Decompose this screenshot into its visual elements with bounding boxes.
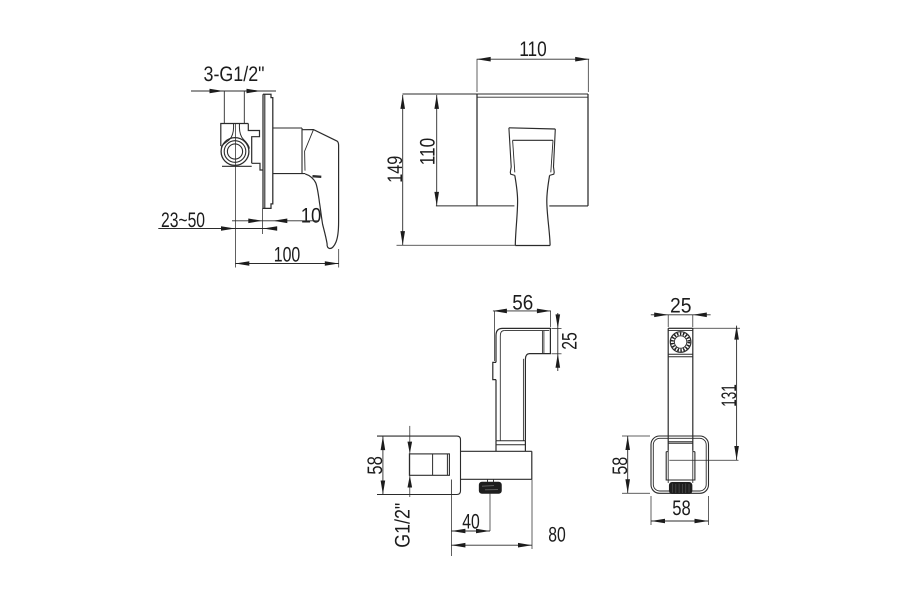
valve middle circle — [224, 141, 246, 163]
inlet pipe right line — [243, 91, 245, 124]
wand inner top line — [668, 330, 693, 332]
dimension 3-G1/2" arrow right (points right) — [247, 89, 261, 94]
sprayer inner left line — [500, 331, 504, 441]
socket sleeve top stubs — [666, 451, 695, 453]
svg-text:G1/2": G1/2" — [391, 503, 414, 548]
sprayer collar joint lines — [496, 441, 525, 445]
spray face inner circle — [674, 336, 686, 348]
extension line spout bottom — [397, 244, 516, 246]
sprayer outer contour — [493, 328, 551, 440]
G1/2 leader line — [409, 426, 411, 497]
sprayer inner top line — [504, 330, 549, 332]
holder plate inner outline — [653, 438, 706, 491]
bracket block top edge — [461, 450, 532, 452]
aerator knob highlight streaks — [482, 486, 498, 490]
dimension 149 arrow top — [400, 95, 405, 109]
dimension 10 arrow left-pointing — [273, 219, 287, 224]
svg-text:25: 25 — [670, 294, 692, 317]
dimension 58 fig3 arrow bottom — [381, 481, 386, 495]
head section bottom line — [668, 353, 693, 355]
escutcheon top edge — [273, 127, 302, 129]
dimension 25 fig4 line — [651, 314, 711, 316]
dimension 80 arrow left — [451, 543, 465, 548]
inlet pipe left line — [223, 91, 225, 124]
socket sleeve outline — [666, 452, 695, 480]
wall plate fig3 rounded square — [377, 436, 461, 494]
wall plate fig1 inner line — [264, 94, 266, 208]
bracket block right edge — [531, 451, 533, 479]
extension line 58 left top — [622, 435, 650, 437]
dimension 58 bottom arrow left — [651, 519, 665, 524]
extension line 58 bottom left — [650, 496, 652, 525]
extension line 25 left — [667, 315, 669, 327]
dimension 10 line — [232, 220, 319, 222]
svg-text:58: 58 — [672, 497, 691, 520]
aerator center leader — [489, 493, 491, 531]
dimension 23~50 line — [158, 228, 277, 230]
extension line 56 left — [493, 311, 495, 361]
dimension 40 arrow left — [451, 529, 465, 534]
extension line 56 right — [550, 311, 552, 327]
dimension 58 left fig4 arrow top — [625, 436, 630, 450]
spout right inner line — [551, 140, 553, 172]
handle joint collar lines — [668, 442, 693, 444]
dimension 3-G1/2" line — [191, 90, 276, 92]
plate bottom edge right segment — [549, 205, 588, 207]
plate left edge — [476, 94, 478, 206]
valve inner circle — [227, 144, 242, 159]
svg-text:80: 80 — [548, 524, 566, 547]
svg-text:58: 58 — [609, 457, 632, 475]
handle lever outline — [302, 130, 339, 249]
svg-text:110: 110 — [519, 38, 547, 61]
socket inner wall right — [692, 451, 694, 483]
dimension 100 arrow left end — [235, 261, 249, 266]
dimension 58 left fig4 arrow bottom — [625, 479, 630, 493]
extension line 25 right — [692, 315, 694, 327]
dimension 56 arrow right — [537, 309, 551, 314]
sprayer elbow inner lines — [542, 331, 544, 354]
dimension 25 fig4 arrow right (points left) — [693, 313, 707, 318]
dimension 110 left arrow bottom — [434, 192, 439, 206]
handle gap sliver — [313, 175, 322, 178]
dimension 131 line — [736, 326, 738, 460]
extension line top-right — [587, 59, 589, 92]
dimension 58 bottom line — [651, 520, 709, 522]
dimension 10 arrow right-pointing — [248, 219, 262, 224]
extension line 58 left bottom — [622, 492, 650, 494]
wand right edge — [692, 328, 694, 451]
dimension 110 left line — [436, 95, 438, 206]
socket inner wall left — [667, 451, 669, 483]
spout body right edge — [547, 175, 550, 245]
dimension 80 arrow right — [518, 543, 532, 548]
spout bottom edge — [515, 245, 550, 247]
plate right edge — [587, 94, 589, 206]
extension line block right — [531, 479, 533, 549]
dimension 25 line fig3 — [557, 313, 559, 371]
holder plate rounded square — [651, 436, 709, 493]
spout left inner line — [513, 140, 515, 172]
extension line plate corner — [450, 495, 452, 556]
plate top edge with left extension — [403, 93, 589, 95]
svg-text:149: 149 — [384, 156, 407, 183]
spray face inner circle rim — [674, 336, 686, 348]
valve outer circle — [221, 138, 249, 166]
wand left edge — [667, 328, 669, 451]
knurled nut vertical streaks — [673, 484, 690, 494]
dimension 25 fig4 arrow left (points right) — [654, 313, 668, 318]
dimension 131 arrow bottom — [734, 446, 739, 460]
plate inner top line — [477, 96, 588, 98]
dimension 40 line — [451, 530, 490, 532]
dimension 23~50 arrow left-pointing at plate face — [263, 226, 277, 231]
outlet boss right cap line — [446, 454, 448, 475]
spout collar line — [513, 139, 553, 141]
dimension 110 top arrow left — [477, 57, 491, 62]
spout left outer edge — [509, 128, 515, 176]
extension line 25 top — [552, 327, 562, 329]
dimension 58 fig3 arrow top — [381, 436, 386, 450]
plate bottom edge left segment with extension — [436, 205, 515, 207]
aerator knurled knob — [479, 482, 501, 493]
spray face outer circle — [670, 332, 691, 353]
dimension 58 left fig4 line — [627, 436, 629, 493]
extension line handle right — [338, 249, 340, 268]
dimension 131 arrow top — [734, 326, 739, 340]
dimension 110 top line — [477, 58, 590, 60]
valve centerline — [235, 124, 237, 268]
cartridge stem right curve — [239, 124, 249, 149]
wall plate fig1 outline — [263, 94, 273, 208]
spout body left edge — [515, 175, 518, 245]
G1/2 arrow down-pointing — [408, 442, 413, 454]
dimension 25 arrow down-pointing — [556, 314, 561, 328]
dimension 40 arrow right — [476, 529, 490, 534]
wand top edge — [668, 327, 693, 329]
head collar line — [668, 356, 693, 358]
dimension 58 fig3 line — [382, 436, 384, 494]
extension line 131 bottom — [669, 459, 738, 461]
sprayer arm lower section — [496, 441, 525, 452]
escutcheon right edge — [301, 128, 303, 174]
wall plate fig3 inner corner line — [450, 480, 452, 495]
outlet boss divider — [432, 454, 434, 475]
svg-text:110: 110 — [416, 138, 439, 166]
extension line 25 bottom — [552, 353, 562, 355]
dimension 110 left arrow top — [434, 95, 439, 109]
handle neck right edge — [305, 130, 314, 171]
knurled nut fig4 — [670, 483, 692, 494]
dimension 100 line — [235, 263, 338, 265]
dimension 25 arrow up-pointing — [556, 354, 561, 368]
extension line top-left — [476, 59, 478, 92]
extension line 58 bottom right — [708, 496, 710, 525]
spout right outer edge — [550, 129, 556, 175]
dimension 58 bottom arrow right — [695, 519, 709, 524]
valve body outline — [221, 124, 263, 171]
dimension 149 line — [402, 95, 404, 245]
dimension 3-G1/2" arrow left (points right) — [210, 89, 224, 94]
dimension 149 arrow bottom — [400, 231, 405, 245]
spout top edge — [509, 128, 555, 129]
sprayer arm inner right line — [522, 359, 524, 441]
svg-text:131: 131 — [718, 384, 741, 407]
dimension 110 top arrow right — [575, 57, 589, 62]
spray face knurl ring — [672, 334, 688, 350]
dimension 23~50 arrow right-pointing at centerline — [221, 226, 235, 231]
dimension 100 arrow right end — [325, 261, 339, 266]
aerator neck lines — [488, 479, 494, 482]
bracket block bottom edge — [461, 478, 532, 480]
dimension 80 line — [451, 544, 532, 546]
svg-text:25: 25 — [558, 332, 581, 350]
dimension 56 line — [493, 310, 551, 312]
escutcheon bottom edge — [273, 173, 305, 175]
cartridge stem left curve — [221, 124, 234, 148]
extension line 131 top — [668, 327, 740, 329]
extension line below plate — [262, 208, 264, 234]
svg-text:10: 10 — [301, 204, 322, 227]
dimension 56 arrow left — [493, 309, 507, 314]
svg-text:3-G1/2": 3-G1/2" — [204, 63, 265, 86]
outlet boss rect — [409, 454, 449, 475]
G1/2 arrow up-pointing — [408, 476, 413, 488]
